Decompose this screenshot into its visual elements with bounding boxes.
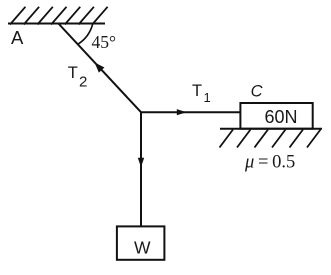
svg-text:A: A [11,27,24,48]
svg-text:45°: 45° [92,32,117,52]
svg-text:C: C [251,82,263,100]
svg-text:60N: 60N [265,107,298,127]
svg-text:1: 1 [204,90,211,105]
svg-text:T: T [192,82,202,100]
svg-text:μ = 0.5: μ = 0.5 [244,152,295,172]
svg-text:2: 2 [79,73,87,90]
svg-text:T: T [68,64,78,82]
svg-text:W: W [134,237,151,257]
